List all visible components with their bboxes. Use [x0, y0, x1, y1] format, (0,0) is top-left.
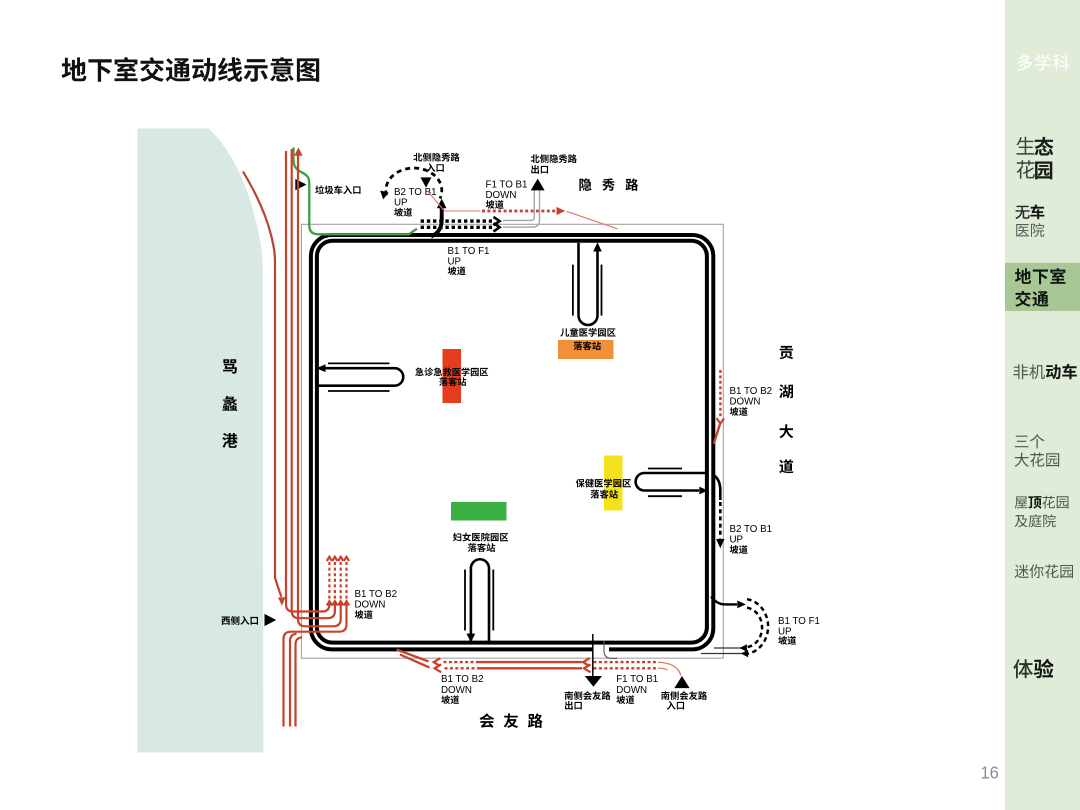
- north ramp end chevrons: [494, 217, 500, 232]
- south exit lane B: [604, 641, 617, 659]
- ring road inner line: [317, 241, 707, 643]
- west weave horizontal H2: [299, 602, 335, 618]
- label 西侧入口: [222, 616, 259, 625]
- north B1-to-F1 arrowhead: [437, 199, 447, 209]
- label B2 TO B1 UP 坡道 (north): [394, 187, 437, 217]
- yellow station rect (healthcare): [604, 456, 623, 511]
- north B2-to-B1 dashed arc ramp: [386, 168, 442, 198]
- west entrance triangle (西侧入口): [265, 614, 277, 626]
- sidebar active item band: [1005, 263, 1080, 311]
- north drop-off U loop (children hospital): [579, 243, 598, 325]
- label 妇女医院园区 落客站: [453, 533, 508, 552]
- red vertical L1: [286, 151, 293, 612]
- south continuation S3: [296, 637, 303, 726]
- red dashed F1-to-B1 down ramp (north): [482, 210, 556, 213]
- southeast return lane upper: [714, 647, 741, 649]
- south loop platform edge left: [464, 570, 466, 631]
- west drop-off U loop (emergency): [317, 368, 403, 386]
- east loop exit arrowhead: [699, 487, 707, 495]
- southeast dashed arc outer: [746, 599, 768, 654]
- west loop platform edge top: [328, 362, 390, 364]
- label 急诊急救医学园区 落客站: [415, 368, 488, 387]
- southeast B1-to-F1 exit line: [711, 597, 737, 605]
- north exit arrowhead (北侧隐秀路出口): [531, 179, 545, 191]
- south exit lane A: [592, 634, 594, 676]
- west weave horizontal H1: [293, 602, 329, 612]
- label B1 TO B2 DOWN 坡道 (east): [730, 386, 773, 416]
- southeast dashed arc inner: [747, 608, 763, 647]
- svg-text:DOWN: DOWN: [730, 396, 761, 407]
- svg-text:DOWN: DOWN: [441, 685, 472, 696]
- west loop platform edge bottom: [328, 390, 390, 392]
- svg-text:DOWN: DOWN: [486, 190, 517, 201]
- south red diagonal pair from ring: [397, 650, 430, 668]
- label B1 TO B2 DOWN 坡道 (south): [441, 674, 484, 704]
- east B1-to-B2 red dashed ramp: [719, 370, 721, 418]
- label 南侧会友路出口: [565, 691, 611, 710]
- sidebar item 体验: [1013, 659, 1053, 678]
- north entrance triangle (北侧隐秀路入口): [420, 177, 431, 187]
- svg-text:UP: UP: [448, 256, 462, 267]
- svg-text:B1 TO B2: B1 TO B2: [441, 674, 484, 685]
- north ramp dashed line upper: [421, 219, 492, 222]
- svg-text:UP: UP: [394, 197, 408, 208]
- east B2-to-B1 arrowhead: [716, 539, 724, 548]
- river 骂蠡港 water body: [138, 129, 264, 753]
- label B1 TO F1 UP 坡道 (southeast): [778, 616, 820, 645]
- riser bottom chevrons: [327, 601, 332, 605]
- sidebar item 三个大花园: [1015, 434, 1060, 467]
- red route along river (L0) with down arrow: [243, 172, 281, 597]
- west weave horizontal H4 turning south: [284, 602, 347, 727]
- red station rect (emergency): [443, 349, 462, 403]
- east red ramp solid tail: [714, 425, 720, 444]
- north loop exit arrowhead: [593, 242, 602, 251]
- east drop-off U loop (healthcare): [636, 473, 707, 491]
- south red solid pair: [477, 662, 582, 668]
- south loop platform edge right: [492, 570, 494, 631]
- svg-text:B2 TO B1: B2 TO B1: [730, 524, 773, 535]
- green station rect (women hospital): [451, 502, 507, 521]
- svg-text:DOWN: DOWN: [355, 599, 386, 610]
- label B2 TO B1 UP 坡道 (east): [730, 524, 773, 554]
- label 南侧会友路入口: [661, 691, 707, 710]
- svg-text:DOWN: DOWN: [616, 685, 647, 696]
- south continuation S2: [290, 634, 297, 727]
- east B2-to-B1 black dashed ramp: [719, 502, 722, 539]
- label F1 TO B1 DOWN 坡道 (south): [616, 674, 658, 704]
- slide title 地下室交通动线示意图: [62, 57, 320, 82]
- L0 arrowhead down: [278, 597, 285, 606]
- north ramp dashed line lower: [421, 226, 492, 229]
- label 保健医学园区 落客站: [576, 479, 631, 499]
- south drop-off U loop (women hospital): [471, 559, 489, 643]
- red vertical L3: [298, 156, 305, 627]
- street name 贡湖大道 (vertical): [779, 346, 793, 474]
- southeast return arrowhead upper: [740, 644, 747, 651]
- label 儿童医学园区 落客站: [560, 328, 615, 350]
- sidebar item 非机动车: [1013, 364, 1077, 380]
- street name 隐秀路: [579, 178, 638, 191]
- svg-text:B1 TO B2: B1 TO B2: [730, 386, 773, 397]
- thin red lane to site (north): [567, 211, 618, 229]
- garbage truck route (green line): [294, 148, 418, 235]
- label 北侧隐秀路入口: [413, 153, 459, 172]
- west weave horizontal H3: [305, 602, 341, 626]
- svg-text:B1 TO B2: B1 TO B2: [355, 589, 398, 600]
- southeast return arrowhead lower: [741, 650, 748, 657]
- east loop platform edge bottom: [648, 495, 682, 497]
- L3 arrowhead up (north): [294, 147, 302, 155]
- label 北侧隐秀路出口: [531, 154, 577, 173]
- sidebar active item 地下室交通: [1015, 268, 1066, 307]
- east loop platform edge top: [648, 468, 682, 470]
- south entrance triangle (南侧会友路入口): [674, 676, 689, 688]
- svg-text:16: 16: [981, 763, 999, 783]
- south road chevrons left: [434, 658, 442, 672]
- south red dashed pair (east part): [594, 662, 659, 668]
- thin red F1 lane into north entrance: [428, 191, 481, 211]
- east B2-to-B1 solid curve: [712, 474, 720, 500]
- sidebar item 生态花园: [1017, 137, 1054, 180]
- svg-text:F1 TO B1: F1 TO B1: [616, 674, 658, 685]
- south loop exit arrowhead: [467, 634, 476, 643]
- north exit lane gray pipe: [503, 190, 540, 227]
- orange station rect (children): [558, 340, 614, 359]
- southeast return lane lower: [701, 653, 743, 655]
- north loop platform edge left: [572, 265, 574, 316]
- label B1 TO B2 DOWN 坡道 (west): [355, 589, 398, 619]
- west loop exit arrowhead: [316, 364, 325, 372]
- north B1-to-F1 up arrow (black curve): [431, 208, 442, 237]
- ring road outer line: [311, 235, 713, 649]
- south red dashed pair (west part): [444, 662, 478, 668]
- street name 会友路: [480, 713, 543, 728]
- svg-text:UP: UP: [730, 534, 744, 545]
- site boundary (thin gray rect): [301, 224, 723, 658]
- north dashed arc arrowhead: [380, 191, 388, 200]
- sidebar item 屋顶花园及庭院: [1015, 496, 1069, 528]
- southeast exit arrowhead: [737, 601, 746, 609]
- B1-to-B2 dashed ramp risers (west): [328, 562, 330, 601]
- sidebar item 无车医院: [1015, 204, 1044, 237]
- sidebar item 多学科 (white): [1017, 54, 1069, 70]
- red arrowhead (north F1 ramp): [557, 207, 566, 215]
- south exit arrowhead: [585, 676, 602, 687]
- ring road break at south exit: [592, 645, 609, 652]
- thin red curve to south entrance: [659, 662, 681, 675]
- north loop platform edge right: [601, 265, 603, 316]
- label F1 TO B1 DOWN 坡道 (north): [486, 179, 528, 208]
- riser top chevrons: [327, 557, 332, 561]
- svg-text:UP: UP: [778, 626, 792, 637]
- east red ramp chevron: [717, 418, 724, 423]
- sidebar background: [1005, 0, 1080, 810]
- river name 骂蠡港 (vertical): [222, 359, 237, 448]
- red vertical L2: [292, 149, 299, 618]
- south road chevrons middle: [583, 658, 591, 672]
- label B1 TO F1 UP 坡道 (north): [448, 246, 490, 275]
- sidebar item 迷你花园: [1015, 564, 1073, 578]
- label 垃圾车入口: [315, 185, 360, 194]
- garbage entrance triangle: [295, 179, 306, 190]
